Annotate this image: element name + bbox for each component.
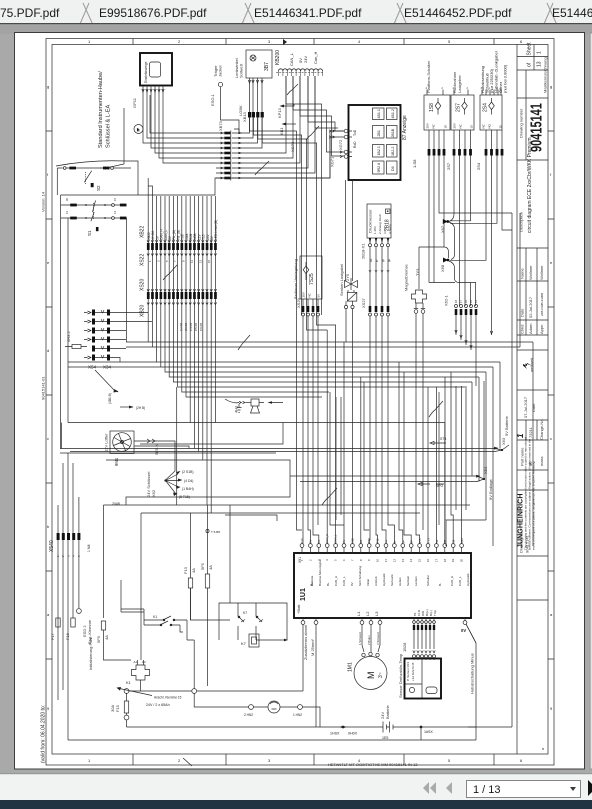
bus into fuses: [191, 505, 231, 686]
svg-text:07-Jul-2017: 07-Jul-2017: [523, 396, 528, 418]
svg-text:Description: Description: [519, 212, 524, 232]
svg-text:Wollmer: Wollmer: [539, 265, 544, 280]
svg-text:mass: mass: [539, 456, 544, 466]
interlock switch 7S25: [300, 256, 322, 299]
svg-text:12: 12: [392, 558, 396, 562]
svg-text:12V: 12V: [300, 538, 304, 543]
svg-text:204B: 204B: [112, 502, 121, 506]
index cells: [517, 420, 548, 440]
svg-text:1 / 13: 1 / 13: [473, 784, 501, 796]
tab separators and labels: [80, 3, 557, 25]
svg-text:Can_H: Can_H: [313, 51, 318, 64]
svg-text:B+: B+: [326, 582, 330, 586]
svg-text:Lastgeber: Lastgeber: [457, 75, 462, 93]
svg-text:X62-1: X62-1: [444, 295, 449, 306]
wire tag 4B1 Antrieb: [95, 370, 145, 410]
svg-text:6R3.2: 6R3.2: [66, 331, 71, 342]
top pin circles: [300, 544, 463, 554]
svg-text:gn: gn: [381, 258, 385, 262]
svg-text:+12 DZ2 0v B: +12 DZ2 0v B: [411, 663, 415, 681]
svg-text:20V: 20V: [426, 123, 430, 128]
svg-text:X64: X64: [460, 538, 464, 543]
cable slash mid: [322, 488, 337, 505]
svg-text:HETANTLT MT OO0ITIOTHE MM 9041: HETANTLT MT OO0ITIOTHE MM 90415141 IN 13: [328, 762, 418, 767]
svg-text:GP11: GP11: [132, 97, 137, 108]
KB200 choke coil: [276, 69, 324, 76]
fuse 5F5: [200, 562, 213, 588]
fuse F13: [183, 566, 196, 620]
svg-text:4A: 4A: [208, 565, 213, 570]
connector X540: [49, 533, 81, 557]
svg-text:2S7: 2S7: [446, 162, 451, 170]
controller 1U1: [294, 553, 471, 618]
svg-text:Hydraulik: Hydraulik: [466, 573, 470, 586]
svg-text:1E5: 1E5: [382, 736, 388, 740]
wire staircase out of XB73: [232, 76, 344, 178]
switch 1S8: [424, 95, 450, 130]
dark bottom strip: [0, 800, 592, 809]
cable slash mark: [255, 161, 269, 175]
switch S1 blades: [91, 201, 96, 222]
svg-text:Jacket: Jacket: [218, 65, 223, 77]
svg-text:g: g: [47, 84, 49, 89]
left rails down: [61, 218, 127, 449]
svg-text:1#SX: 1#SX: [424, 730, 433, 734]
motor 1M1: [348, 652, 388, 689]
svg-text:CAN_H: CAN_H: [450, 576, 454, 586]
wires from XB13 down/right: [250, 76, 345, 311]
name cells: [517, 248, 548, 320]
svg-text:KB200: KB200: [275, 50, 281, 65]
wire tag Anschluss Klemme: [120, 689, 153, 696]
svg-text:Batterie: Batterie: [385, 704, 390, 719]
svg-text:75.PDF.pdf: 75.PDF.pdf: [0, 6, 60, 20]
svg-text:2B1B: 2B1B: [391, 128, 395, 137]
svg-text:3 Schwarz: 3 Schwarz: [376, 631, 380, 645]
battery 1E5: [380, 704, 396, 740]
svg-text:F13: F13: [183, 566, 188, 574]
svg-text:4A: 4A: [191, 568, 196, 573]
switch 2S4: [480, 95, 503, 130]
steering sensor 3B7: [246, 50, 272, 78]
key switch S2 row: [56, 161, 138, 195]
svg-text:K1: K1: [153, 615, 157, 619]
svg-text:C4 08: C4 08: [189, 323, 193, 331]
tab bar bottom line: [0, 23, 592, 24]
svg-text:E51446: E51446: [552, 6, 592, 20]
top pin numbers: [300, 558, 464, 562]
svg-text:h: h: [137, 127, 139, 132]
connector XB73 column: [218, 120, 242, 180]
display unit pins with arrows: [142, 86, 164, 95]
svg-text:CAN_H: CAN_H: [325, 534, 329, 543]
svg-text:11: 11: [384, 559, 388, 562]
svg-text:Drawing number: Drawing number: [519, 108, 524, 138]
svg-text:E51446452.PDF.pdf: E51446452.PDF.pdf: [404, 6, 512, 20]
svg-text:(2 S1B): (2 S1B): [182, 470, 194, 474]
wire loops left-mid: [60, 423, 502, 661]
pins TxD RxD: [344, 129, 352, 158]
connector X54 X34 arrays: [84, 311, 91, 359]
column ref labels: [179, 323, 203, 331]
connector row chevrons 2: [147, 289, 217, 291]
right return bus: [511, 213, 513, 727]
svg-text:g: g: [550, 84, 552, 89]
switch top pin stubs: [427, 90, 501, 96]
svg-text:15: 15: [499, 125, 503, 129]
wire fates below XB20: [148, 299, 500, 513]
gray band under tabs: [0, 24, 592, 34]
harness between connectors: [148, 250, 215, 292]
svg-text:P. Sensor DZ1: P. Sensor DZ1: [406, 661, 410, 681]
svg-text:L3: L3: [374, 611, 379, 616]
svg-text:Bediener-Verriegelung: Bediener-Verriegelung: [293, 259, 298, 299]
svg-text:X67: X67: [440, 225, 445, 233]
svg-text:2S4: 2S4: [483, 103, 489, 112]
switch S1 rows: [61, 195, 120, 240]
svg-text:c: c: [47, 436, 49, 441]
svg-text:C6 08: C6 08: [199, 323, 203, 331]
svg-text:Heben: Heben: [398, 577, 402, 586]
svg-text:5F5: 5F5: [200, 562, 205, 570]
svg-text:L2: L2: [365, 611, 370, 616]
connector XS29: [296, 297, 320, 316]
fan wiring: [134, 439, 189, 480]
switch S2 blade: [84, 171, 91, 183]
svg-text:CAN_L: CAN_L: [458, 576, 462, 586]
svg-text:Druckmesser: Druckmesser: [368, 209, 373, 233]
neighbour page sliver: [590, 33, 592, 769]
bottom margin slash: [183, 758, 192, 766]
svg-text:2Y5: 2Y5: [418, 538, 422, 543]
svg-text:S8: S8: [452, 539, 456, 543]
svg-text:XB20: XB20: [140, 305, 146, 317]
svg-text:10: 10: [376, 558, 380, 562]
svg-text:Hubabschaltung Minus: Hubabschaltung Minus: [470, 653, 475, 694]
terminal ESD2: [77, 609, 93, 644]
svg-text:Einstellanzeige: Einstellanzeige: [144, 61, 148, 83]
svg-text:CAN_L: CAN_L: [334, 534, 338, 543]
relay K7: [241, 634, 288, 647]
margin zone letters: [47, 39, 553, 763]
connector row XB22: [147, 243, 217, 250]
svg-text:1 M4: 1 M4: [87, 544, 91, 552]
wire ESO.1 down: [221, 87, 240, 133]
drawing number cell: [517, 70, 548, 160]
svg-text:Sheet: Sheet: [527, 42, 533, 56]
svg-text:M 25mm²: M 25mm²: [310, 638, 315, 656]
svg-text:0V: 0V: [461, 628, 466, 633]
svg-text:XS27: XS27: [361, 297, 366, 308]
svg-text:Schlüssel & L-EA: Schlüssel & L-EA: [106, 105, 112, 148]
fan unit 9M1: [104, 431, 135, 466]
svg-text:D6: D6: [391, 166, 395, 171]
svg-text:Magnetbremse: Magnetbremse: [404, 264, 409, 291]
svg-text:3~: 3~: [378, 672, 384, 678]
comb of verticals into controller: [177, 311, 466, 544]
svg-text:S7: S7: [443, 539, 447, 543]
motor sensor wires down: [466, 624, 476, 727]
top pin wire labels: [300, 534, 464, 543]
svg-text:5V: 5V: [317, 294, 321, 298]
bundle top bends: [148, 178, 152, 196]
valve TY3: [412, 268, 427, 347]
wire tag KB1: [279, 123, 296, 136]
label Hubabsenkung Schnellhub: [480, 51, 508, 93]
svg-text:Senken Lastgabel: Senken Lastgabel: [339, 264, 344, 296]
horn circuit: [194, 693, 320, 727]
svg-text:K1: K1: [126, 680, 132, 685]
svg-text:Antrieb: Antrieb: [374, 576, 378, 586]
cable slash mark: [163, 265, 177, 280]
svg-text:16: 16: [470, 125, 474, 129]
svg-text:0V: 0V: [350, 582, 354, 586]
svg-text:9V Batterie: 9V Batterie: [504, 415, 509, 436]
junction X67: [440, 219, 455, 260]
svg-text:X64: X64: [483, 466, 488, 474]
svg-text:X63: X63: [501, 437, 506, 445]
svg-text:24V / 2 x 65Ah: 24V / 2 x 65Ah: [146, 703, 170, 707]
svg-text:1U1: 1U1: [300, 588, 307, 601]
svg-text:Version: 14: Version: 14: [41, 191, 46, 212]
wire tag KP13: [277, 104, 294, 118]
svg-text:Anschl. Klemme 15: Anschl. Klemme 15: [154, 696, 182, 700]
svg-text:15: 15: [207, 259, 211, 263]
horn 4H1: [225, 399, 283, 413]
svg-text:XS29: XS29: [296, 297, 301, 308]
svg-text:Zusatzbrems abmel: Zusatzbrems abmel: [303, 625, 308, 660]
svg-text:Sensorik: Sensorik: [390, 574, 394, 586]
svg-text:X540: X540: [49, 540, 55, 552]
svg-text:1: 1: [537, 51, 543, 54]
svg-text:XS22: XS22: [140, 254, 146, 266]
pin -Batt: [463, 618, 476, 727]
svg-text:(4 D4): (4 D4): [184, 479, 193, 483]
long bus wires: [68, 213, 533, 546]
valve 2Y5: [339, 264, 358, 347]
svg-text:3 0V: 3 0V: [383, 228, 387, 234]
svg-text:(valid from: 06.04.2020 to:: (valid from: 06.04.2020 to:: [41, 705, 47, 763]
svg-text:0V: 0V: [308, 540, 312, 543]
svg-text:S2: S2: [96, 185, 101, 191]
svg-text:13: 13: [198, 259, 202, 263]
svg-text:3B7: 3B7: [264, 62, 270, 71]
svg-text:CAN_L: CAN_L: [289, 52, 294, 66]
svg-text:24V Schlüssel: 24V Schlüssel: [146, 472, 151, 497]
svg-text:K7: K7: [243, 611, 247, 615]
margin ticks left: [46, 131, 52, 659]
bottom bus wires: [68, 726, 512, 740]
svg-text:F15: F15: [115, 704, 120, 712]
svg-text:br: br: [375, 259, 379, 262]
svg-text:Adam: Adam: [528, 323, 533, 334]
svg-text:1B2.2: 1B2.2: [391, 147, 395, 156]
speed sensor 1B28: [398, 653, 441, 699]
svg-text:5F9: 5F9: [96, 635, 101, 643]
junction X62: [146, 470, 194, 499]
partial next icon at edge: [588, 780, 592, 796]
bus line f-row: [61, 131, 344, 195]
svg-text:20V: 20V: [302, 292, 306, 297]
svg-text:L1: L1: [356, 611, 361, 616]
svg-text:87 Anzeige: 87 Anzeige: [402, 115, 408, 140]
2B18 pins: [369, 238, 389, 311]
svg-text:A1: A1: [134, 660, 138, 664]
svg-text:90415141-01: 90415141-01: [41, 376, 46, 400]
fuse F15 battery: [110, 689, 170, 727]
svg-text:D4: D4: [359, 539, 363, 543]
display unit U-display (Einstellanzeige): [140, 53, 172, 86]
connector X62-1: [444, 295, 479, 386]
svg-text:4 Temp: 4 Temp: [388, 224, 392, 234]
svg-text:1-S8: 1-S8: [412, 159, 417, 168]
svg-text:LED-Leiste(B): LED-Leiste(B): [214, 220, 218, 240]
outer frame: [46, 39, 554, 766]
svg-text:0V: 0V: [342, 540, 346, 543]
wire staircase into XB73: [143, 94, 239, 178]
svg-text:Sollwert: Sollwert: [239, 63, 244, 78]
svg-text:event of the grant of a patent: event of the grant of a patent. Junghein…: [532, 461, 536, 550]
connector row XB20: [147, 292, 217, 299]
switch 2S7: [451, 95, 474, 130]
logo cell: [517, 349, 548, 351]
svg-text:XG72: XG72: [290, 141, 295, 152]
wires from arrays to right: [110, 313, 152, 363]
svg-text:+Batt: +Batt: [296, 604, 301, 614]
svg-text:Sich.Schaltung: Sich.Schaltung: [358, 566, 362, 586]
svg-text:30A: 30A: [110, 705, 115, 712]
svg-text:d: d: [47, 348, 49, 353]
svg-text:ESO.1: ESO.1: [210, 93, 215, 106]
tiny terminal labels: [65, 198, 117, 214]
svg-text:(nur bei 3.0000): (nur bei 3.0000): [503, 64, 508, 93]
margin ticks right: [548, 131, 554, 659]
svg-text:(1 B4H): (1 B4H): [182, 487, 194, 491]
pressure sensor 2B18: [367, 204, 392, 238]
svg-text:1 20V: 1 20V: [373, 226, 377, 234]
svg-text:X68: X68: [440, 264, 445, 272]
svg-text:NO: NO: [488, 123, 492, 128]
pin cells column 1: [373, 108, 385, 174]
svg-text:2 Analog 1Hub: 2 Analog 1Hub: [378, 214, 382, 234]
left power rails: [58, 453, 79, 740]
svg-text:12V Lüfter: 12V Lüfter: [104, 433, 109, 452]
svg-text:Date: Date: [531, 403, 536, 412]
svg-text:Hydraulik: Hydraulik: [382, 573, 386, 586]
svg-text:C5 08: C5 08: [194, 323, 198, 331]
svg-text:RxD: RxD: [353, 141, 357, 148]
svg-text:Senken: Senken: [406, 575, 410, 586]
svg-text:ws: ws: [369, 258, 373, 262]
fuse F16: [65, 618, 75, 640]
svg-text:2S4: 2S4: [476, 162, 481, 170]
svg-text:br: br: [392, 541, 396, 543]
svg-text:XB22: XB22: [140, 226, 146, 238]
junction X63: [430, 415, 509, 451]
main harness vertical bundle: [148, 196, 215, 243]
bottom pins left: [301, 618, 318, 727]
svg-text:20: 20: [460, 558, 464, 562]
svg-text:ge: ge: [387, 258, 391, 262]
svg-text:1B28: 1B28: [402, 642, 407, 652]
page combo box: [467, 781, 581, 798]
svg-text:4B1.1: 4B1.1: [377, 109, 381, 118]
node h (horn symbol circle): [134, 125, 143, 134]
svg-text:02-Jul-2017: 02-Jul-2017: [528, 296, 533, 318]
svg-text:73211: 73211: [528, 426, 533, 438]
svg-text:M: M: [366, 672, 376, 680]
svg-text:XG72: XG72: [338, 139, 343, 150]
svg-text:KP13: KP13: [277, 107, 282, 118]
fuse 5F9: [96, 621, 109, 643]
svg-text:Tmp: Tmp: [433, 610, 437, 616]
svg-text:TxD: TxD: [353, 129, 357, 136]
svg-text:Bremse Motorsignal: Bremse Motorsignal: [318, 559, 322, 586]
svg-text:KB1: KB1: [279, 127, 284, 135]
svg-text:5V: 5V: [317, 540, 321, 543]
svg-text:T15: T15: [376, 538, 380, 543]
svg-text:Mastkennzeichnung: Mastkennzeichnung: [543, 57, 548, 93]
control unit 87 Anzeige: [349, 105, 401, 180]
bundle wire labels: [147, 220, 218, 240]
cell pin numbers: [377, 109, 395, 172]
svg-text:1 Schwarz: 1 Schwarz: [358, 631, 362, 645]
pin numbers between rows: [148, 259, 211, 263]
svg-text:18: 18: [444, 125, 448, 129]
svg-text:Lenken: Lenken: [414, 576, 418, 586]
svg-text:2 Braun: 2 Braun: [367, 635, 371, 645]
svg-text:XS20: XS20: [140, 279, 146, 291]
svg-text:C3 08: C3 08: [184, 323, 188, 331]
svg-text:Wollmer: Wollmer: [528, 265, 533, 280]
svg-text:2B1: 2B1: [377, 130, 381, 136]
svg-text:(2H B): (2H B): [136, 406, 145, 410]
wire TY3 feed: [418, 247, 420, 289]
svg-text:S1B: S1B: [350, 538, 354, 543]
svg-text:B-: B-: [438, 583, 442, 586]
3B7 pins: [248, 78, 263, 112]
nav first-page icon: [423, 782, 452, 794]
svg-text:11: 11: [190, 260, 194, 263]
svg-text:2Y5: 2Y5: [345, 273, 350, 281]
svg-text:Standard Instrumenten-Haube/: Standard Instrumenten-Haube/: [98, 71, 104, 148]
svg-text:4A: 4A: [104, 635, 109, 640]
svg-text:c: c: [550, 436, 552, 441]
svg-text:A2: A2: [142, 660, 146, 664]
svg-text:S1: S1: [87, 230, 92, 236]
svg-text:15: 15: [418, 558, 422, 562]
svg-text:9R2.6: 9R2.6: [377, 163, 381, 173]
svg-text:7S25: 7S25: [309, 273, 315, 285]
svg-text:Initialisierung Plus: Initialisierung Plus: [88, 638, 93, 670]
svg-text:Change-No.: Change-No.: [539, 418, 544, 440]
svg-text:14: 14: [409, 558, 413, 562]
connector XS27: [361, 297, 390, 316]
svg-text:B4H: B4H: [367, 538, 371, 543]
drawing no cell 2: [517, 489, 548, 491]
svg-text:F16: F16: [65, 632, 70, 640]
wire from S-column down-left: [100, 108, 124, 168]
margin ticks top: [133, 39, 494, 45]
connector labels: [412, 159, 481, 170]
svg-text:26B-F90B-3390B: 26B-F90B-3390B: [540, 293, 544, 316]
svg-text:X62: X62: [151, 489, 156, 497]
svg-text:1HSX: 1HSX: [330, 732, 340, 736]
cable slash marks: [287, 84, 298, 95]
margin ticks bottom: [133, 754, 494, 765]
svg-text:1M1: 1M1: [348, 662, 354, 672]
bottom pins L1 L2 L3: [360, 618, 382, 652]
